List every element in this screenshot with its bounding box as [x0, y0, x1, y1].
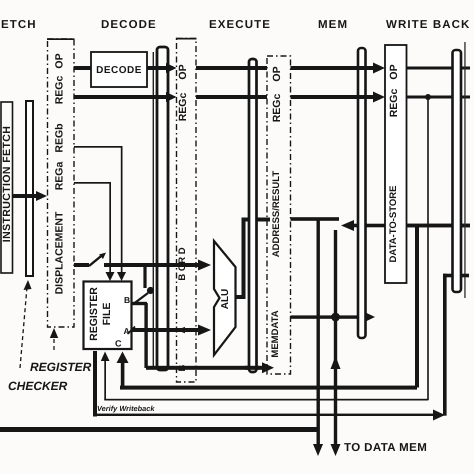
wire REGc row [74, 92, 177, 102]
wire OP over EX/MEM bar [196, 66, 267, 70]
wire REGc number down [427, 97, 429, 400]
wire A port to ALU [132, 325, 212, 336]
svg-text:INSTRUCTION FETCH: INSTRUCTION FETCH [1, 126, 13, 242]
pipeline latch MEM (OP REGc ADDRESS/RESULT MEMDATA) [267, 56, 291, 374]
switch pivot dot [147, 287, 154, 294]
wire B row to MEMDATA [146, 362, 274, 373]
pipeline latch EX (OP REGc / B-OR-D A B) [177, 39, 197, 383]
svg-text:ALU: ALU [220, 289, 231, 310]
wire B down to B row [144, 303, 147, 368]
pipeline register bar ID/EX [157, 47, 168, 370]
wire B port stub [132, 302, 148, 305]
instruction fetch box [1, 102, 13, 273]
svg-text:ADDRESS/RESULT: ADDRESS/RESULT [271, 171, 282, 258]
svg-text:DECODE: DECODE [96, 65, 142, 76]
svg-text:A: A [124, 326, 130, 336]
junction REGc writeback [425, 94, 431, 100]
dashed checker arrow to latch [50, 328, 58, 350]
wire MEMDATA out [291, 312, 376, 322]
dashed checker arrow to fetch bar [20, 280, 32, 368]
svg-text:B OR D: B OR D [177, 247, 188, 280]
wire REGc MEM to WB [291, 92, 386, 103]
pipeline latch IF/ID (OP REGc REGb REGa DISPLACEMENT) [48, 39, 75, 327]
svg-text:TO DATA MEM: TO DATA MEM [344, 442, 427, 454]
wire address down to data mem [313, 219, 323, 456]
ALU [214, 241, 236, 355]
fetch checker bar [26, 101, 33, 276]
svg-text:DECODE: DECODE [101, 19, 157, 31]
svg-text:B: B [124, 295, 130, 305]
wire REGc over EX/MEM bar [196, 95, 267, 99]
svg-text:ETCH: ETCH [1, 19, 37, 31]
pipeline register bar retire [453, 50, 462, 292]
wire ALU output up to ADDRESS/RESULT [236, 218, 271, 300]
switch blade A port [128, 327, 136, 335]
pipeline latch WB (OP REGc DATA-TO-STORE) [385, 45, 407, 283]
wire feedback drop to C data [415, 226, 419, 388]
wire OP to decode [74, 66, 91, 70]
wire OP WB out [407, 67, 471, 70]
wire result to C port [117, 352, 418, 390]
pipeline register bar MEM/WB [358, 48, 366, 338]
wire writeback data feedback [341, 220, 470, 231]
svg-text:REGb: REGb [54, 123, 66, 152]
wire fetch to decode latch [13, 191, 48, 201]
svg-text:MEM: MEM [318, 19, 348, 31]
svg-text:REGc: REGc [54, 76, 66, 105]
wire REGc to C addr [101, 352, 429, 401]
svg-text:REGISTER: REGISTER [88, 287, 100, 341]
wire OP MEM to WB [291, 63, 386, 74]
wire commit line [443, 274, 469, 416]
wire data mem bus vertical [331, 230, 341, 456]
svg-text:WRITE BACK: WRITE BACK [386, 19, 470, 31]
latch top edge solid [47, 38, 75, 40]
svg-text:OP: OP [177, 64, 189, 79]
svg-text:REGc: REGc [177, 93, 189, 122]
svg-text:FILE: FILE [101, 303, 113, 326]
svg-text:REGISTER: REGISTER [30, 360, 92, 374]
svg-text:CHECKER: CHECKER [8, 379, 68, 393]
wire REGb to regfile read addr [74, 146, 126, 281]
wire verify writeback [93, 410, 445, 421]
svg-text:C: C [115, 339, 122, 349]
EX latch top edge solid [176, 38, 197, 40]
thin decode control line down [153, 52, 154, 367]
pipeline register bar EX/MEM [249, 59, 257, 372]
svg-text:Verify Writeback: Verify Writeback [97, 404, 155, 413]
register file box [84, 282, 132, 350]
wire bottom bus [0, 427, 318, 432]
decode unit box [91, 52, 147, 87]
wire OP decode to EX latch [147, 63, 177, 73]
svg-text:REGa: REGa [54, 162, 66, 191]
wire REGa to regfile read addr [74, 182, 115, 281]
svg-text:REGc: REGc [388, 89, 400, 118]
svg-text:REGc: REGc [271, 94, 283, 123]
svg-text:OP: OP [271, 66, 283, 81]
switch blade B port [134, 293, 148, 304]
wire regfile checker down [93, 351, 97, 417]
svg-text:EXECUTE: EXECUTE [209, 19, 271, 31]
wire B over EX/MEM bar [245, 366, 259, 370]
svg-text:DISPLACEMENT: DISPLACEMENT [54, 211, 66, 294]
svg-text:MEMDATA: MEMDATA [270, 310, 281, 357]
wire ADDRESS out [291, 217, 340, 221]
wire retire edge line [464, 42, 465, 298]
wire drop to B bypass switch [143, 265, 146, 288]
svg-text:A: A [177, 326, 188, 333]
svg-text:OP: OP [54, 53, 66, 68]
wire DISPLACEMENT / B-OR-D bus [74, 253, 211, 271]
svg-text:OP: OP [388, 64, 400, 79]
wire feedback right of WB latch [407, 224, 471, 228]
svg-text:DATA-TO-STORE: DATA-TO-STORE [388, 186, 399, 263]
label register checker [8, 360, 92, 393]
wire REGc WB out [407, 96, 471, 99]
